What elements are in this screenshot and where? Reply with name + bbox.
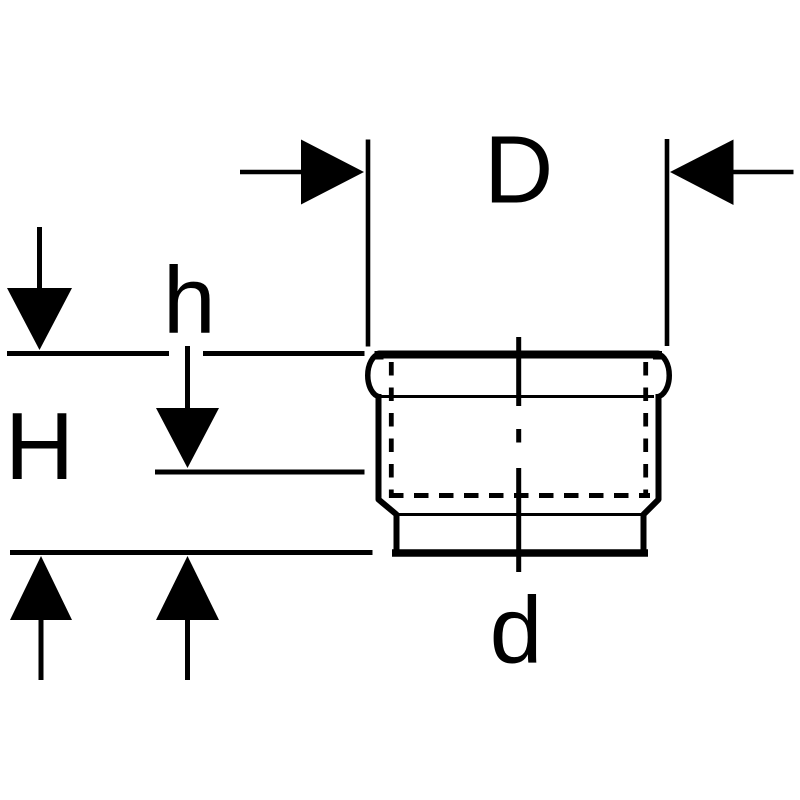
dimension D tail line left [240, 170, 302, 175]
hidden line left (dashed) [389, 362, 394, 498]
dimension D arrowhead right (pointing left) [670, 140, 734, 206]
fitting bead top-left junction fill [375, 351, 384, 360]
reference line top right segment [203, 351, 365, 356]
dimension D tail line right [733, 170, 794, 175]
extension line right of D [665, 139, 670, 346]
fitting left wall and chamfer [379, 394, 397, 552]
dimension h arrowhead (pointing down) [156, 408, 219, 468]
extension line left of D [366, 140, 371, 347]
fitting spigot shoulder line [398, 513, 642, 516]
reference line bottom [10, 550, 373, 555]
centerline short dash [516, 429, 521, 443]
dimension h lower arrowhead (pointing up) [156, 556, 219, 620]
fitting right wall and chamfer [644, 394, 659, 552]
fitting socket bead right arc [658, 354, 670, 397]
hidden line bottom (dashed) [389, 493, 650, 498]
dimension h arrow stem [185, 346, 190, 409]
fitting line under bead [381, 395, 654, 398]
dimension H lower arrowhead (pointing up) [10, 556, 72, 620]
svg-text:D: D [484, 116, 553, 223]
svg-text:h: h [163, 248, 216, 354]
centerline lower segment [516, 468, 521, 572]
hidden line right (dashed) [643, 362, 648, 498]
fitting top edge [379, 351, 658, 359]
dimension h lower arrow stem [185, 619, 190, 680]
fitting bottom edge [392, 549, 648, 557]
svg-text:d: d [490, 577, 543, 683]
dimension H lower arrow stem [39, 619, 44, 680]
svg-text:H: H [5, 393, 74, 500]
reference line top left segment [7, 351, 169, 356]
fitting bead top-right junction fill [653, 351, 662, 360]
dimension H upper arrowhead (pointing down) [7, 288, 72, 350]
dimension D arrowhead left (pointing right) [301, 140, 364, 205]
centerline upper segment [516, 337, 521, 406]
reference line middle [155, 470, 365, 475]
dimension H upper arrow stem [37, 227, 42, 291]
fitting socket bead left arc [368, 354, 380, 397]
